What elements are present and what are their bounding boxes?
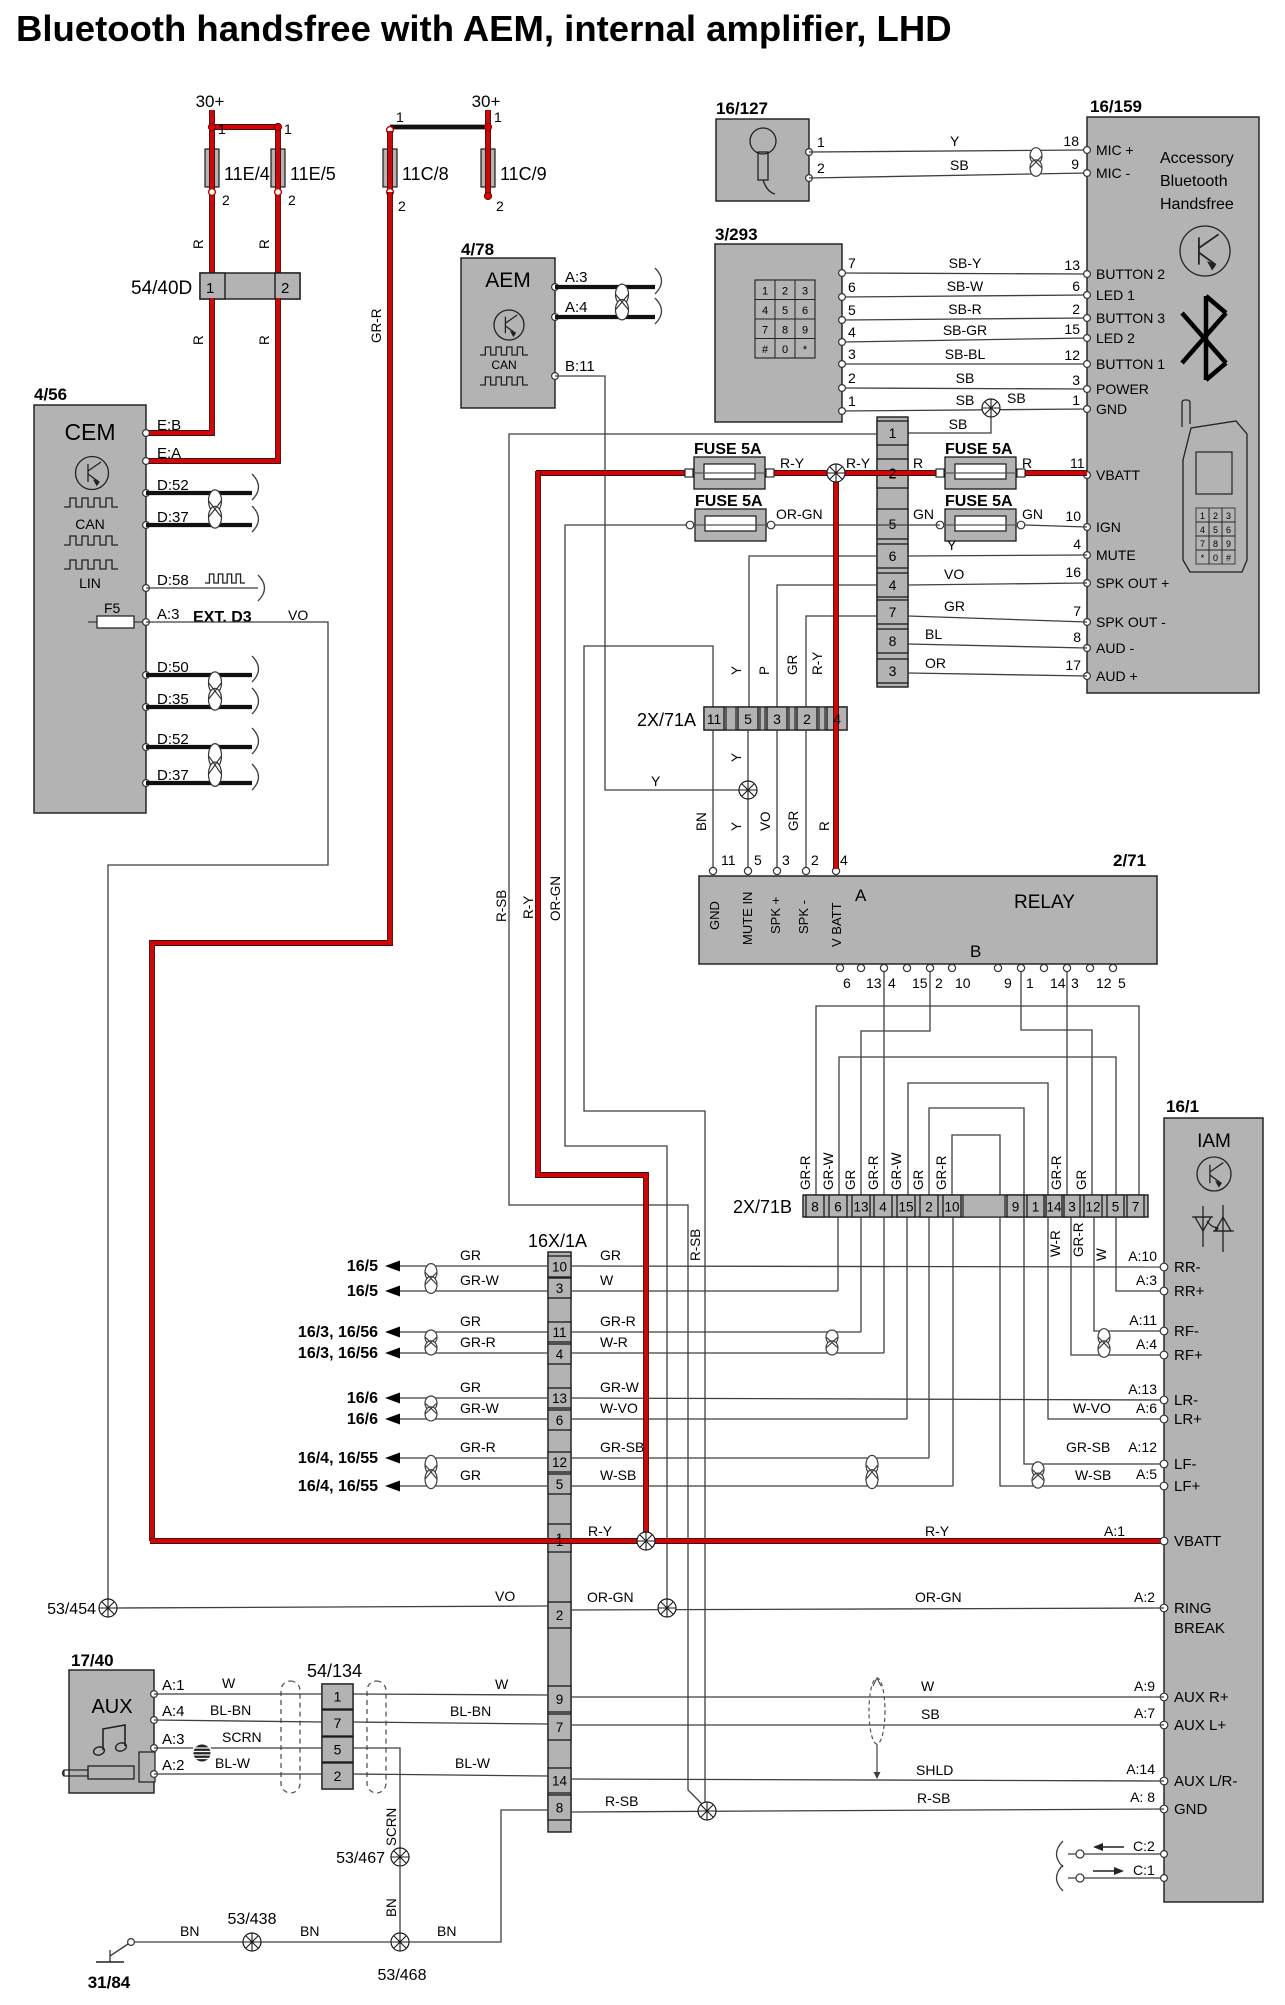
svg-text:16/6: 16/6 bbox=[347, 1390, 378, 1407]
wire SB-BL keypad pin 3 to 16/159 pin 12 bbox=[839, 346, 1087, 367]
svg-text:2: 2 bbox=[281, 280, 289, 297]
wire W-VO row LR+ 16X/1A to 2X/71B pin 15 riser bbox=[571, 1400, 1157, 1419]
wire OR-GN label / GN to strip cell 5 and right fuse to 16/159 IGN bbox=[775, 506, 1087, 527]
svg-text:7: 7 bbox=[1200, 539, 1205, 549]
svg-text:4: 4 bbox=[888, 975, 896, 991]
svg-text:2: 2 bbox=[1072, 301, 1080, 317]
svg-text:R-SB: R-SB bbox=[605, 1793, 638, 1809]
svg-text:C:1: C:1 bbox=[1133, 1862, 1155, 1878]
svg-text:AUX L+: AUX L+ bbox=[1174, 1717, 1226, 1734]
svg-text:1: 1 bbox=[889, 425, 897, 441]
svg-text:P: P bbox=[757, 666, 772, 675]
fuse FUSE 5A (VBATT right) bbox=[945, 441, 1016, 489]
wire drop 2X/71B pin 12 to RF- row (GR-R) bbox=[1071, 1217, 1164, 1331]
svg-text:VO: VO bbox=[495, 1588, 515, 1604]
svg-text:GR-R: GR-R bbox=[866, 1155, 881, 1190]
svg-text:BUTTON 3: BUTTON 3 bbox=[1096, 310, 1165, 326]
wire BL-BN 54/134 to 16X/1A cell 7 bbox=[353, 1703, 548, 1724]
svg-text:30+: 30+ bbox=[196, 92, 225, 111]
svg-text:5: 5 bbox=[744, 711, 752, 727]
svg-text:9: 9 bbox=[802, 325, 808, 337]
svg-text:0: 0 bbox=[782, 344, 788, 356]
ground bridge wire to 2X/71A pin 11 bbox=[584, 646, 713, 1806]
bridge wire 2X/71B pin 15 to pin 14 bbox=[908, 1083, 1048, 1196]
AEM pins A:3 A:4 B:11 bbox=[552, 269, 595, 379]
title bbox=[16, 8, 952, 49]
labels on red fuse row bbox=[780, 455, 1085, 471]
svg-text:GN: GN bbox=[1022, 506, 1043, 522]
svg-text:V BATT: V BATT bbox=[829, 902, 844, 947]
svg-text:A:1: A:1 bbox=[1104, 1523, 1125, 1539]
wire GR strip cell 7 left to 2X/71A pin 2 bbox=[785, 616, 877, 708]
svg-text:A:10: A:10 bbox=[1128, 1248, 1157, 1264]
svg-text:SB-R: SB-R bbox=[948, 301, 981, 317]
svg-text:6: 6 bbox=[843, 975, 851, 991]
svg-text:11: 11 bbox=[1070, 455, 1085, 471]
svg-text:14: 14 bbox=[552, 1774, 568, 1789]
svg-text:9: 9 bbox=[1071, 156, 1079, 172]
svg-text:GR: GR bbox=[1074, 1169, 1089, 1190]
svg-text:SHLD: SHLD bbox=[916, 1762, 953, 1778]
wire GR row 16/5 (RR-) left of 16X/1A bbox=[347, 1247, 548, 1275]
svg-text:SCRN: SCRN bbox=[384, 1808, 399, 1846]
splice 53/438 bbox=[228, 1911, 277, 1951]
wire colour labels above 2X/71B bbox=[798, 1152, 1089, 1190]
svg-text:GND: GND bbox=[1174, 1801, 1208, 1818]
svg-text:R: R bbox=[257, 335, 272, 345]
wire BL-BN AUX A:4 to 54/134 pin 7 bbox=[154, 1702, 322, 1722]
svg-text:B: B bbox=[970, 942, 981, 961]
svg-text:2: 2 bbox=[1213, 511, 1218, 521]
svg-text:11E/4: 11E/4 bbox=[224, 164, 270, 184]
bridge wire 2X/71B pin 6 to pin 5 bbox=[839, 1057, 1116, 1196]
svg-text:13: 13 bbox=[853, 1200, 868, 1215]
svg-text:W-SB: W-SB bbox=[1075, 1467, 1111, 1483]
svg-text:OR: OR bbox=[925, 655, 946, 671]
svg-text:W: W bbox=[921, 1678, 935, 1694]
svg-text:2: 2 bbox=[222, 192, 230, 208]
svg-text:2: 2 bbox=[925, 1200, 933, 1215]
svg-text:5: 5 bbox=[334, 1742, 342, 1758]
svg-text:8: 8 bbox=[811, 1200, 819, 1215]
svg-text:BN: BN bbox=[384, 1898, 399, 1917]
svg-text:BL-BN: BL-BN bbox=[450, 1703, 491, 1719]
svg-text:R-Y: R-Y bbox=[846, 455, 871, 471]
svg-text:GR: GR bbox=[944, 598, 965, 614]
wire drop 2X/71B pin 14 to LR+ row (W-VO) bbox=[1048, 1217, 1164, 1419]
svg-text:16/5: 16/5 bbox=[347, 1258, 378, 1275]
svg-text:3: 3 bbox=[1068, 1200, 1076, 1215]
svg-text:SB: SB bbox=[949, 416, 968, 432]
svg-text:*: * bbox=[803, 344, 808, 356]
svg-text:4: 4 bbox=[840, 852, 848, 868]
wire BN 2X/71A pin 11 to relay GND bbox=[694, 730, 736, 869]
svg-text:1: 1 bbox=[494, 109, 502, 125]
svg-text:10: 10 bbox=[944, 1200, 959, 1215]
wire SB MIC- to 16/159 pin 9 bbox=[809, 156, 1087, 178]
svg-text:VO: VO bbox=[758, 811, 773, 831]
svg-text:FUSE 5A: FUSE 5A bbox=[945, 441, 1013, 458]
svg-text:R: R bbox=[257, 239, 272, 249]
twist on RF pair near 2X/71B bbox=[826, 1330, 838, 1355]
svg-text:A:2: A:2 bbox=[1134, 1589, 1155, 1605]
labels on red VBATT row bbox=[588, 1523, 1125, 1539]
svg-text:GR: GR bbox=[786, 810, 801, 831]
wire VO from CEM A:3 down to splice 53/454 bbox=[108, 622, 328, 1601]
twist on 16/6 pair bbox=[425, 1396, 437, 1421]
svg-text:R-Y: R-Y bbox=[925, 1523, 950, 1539]
splice on mute Y wire bbox=[739, 781, 757, 799]
wire GR-W row 16/6 (LR+) left bbox=[347, 1400, 548, 1428]
svg-text:F5: F5 bbox=[104, 600, 121, 616]
svg-text:1: 1 bbox=[1200, 511, 1205, 521]
wire OR-GN from IGN fuse to the left and down bbox=[548, 525, 686, 1602]
label EXT. D3 and VO on CEM A:3 wire bbox=[193, 607, 308, 626]
svg-text:10: 10 bbox=[1065, 508, 1081, 524]
wire link 11C/8 pin1 to 11C/9 pin1 (black) bbox=[390, 109, 502, 127]
wire BL-W AUX A:2 to 54/134 pin 2 bbox=[154, 1755, 322, 1774]
wire SB-Y keypad pin 7 to 16/159 pin 13 bbox=[839, 255, 1087, 276]
svg-text:GR-R: GR-R bbox=[460, 1334, 496, 1350]
svg-text:R-Y: R-Y bbox=[810, 652, 825, 675]
svg-text:9: 9 bbox=[1226, 539, 1231, 549]
connector 2X/71B bbox=[733, 1195, 1148, 1217]
svg-text:6: 6 bbox=[1226, 525, 1231, 535]
svg-text:W: W bbox=[222, 1675, 236, 1691]
wire drop 2X/71B pin 6 to W row bbox=[837, 1217, 839, 1291]
wire GR row RR- 16X/1A to IAM A:10 bbox=[571, 1247, 1164, 1267]
wire R-SB 16X/1A cell 8 to IAM A:8 GND bbox=[571, 1789, 1164, 1812]
svg-text:11C/8: 11C/8 bbox=[402, 164, 449, 184]
svg-text:GR-W: GR-W bbox=[821, 1152, 836, 1190]
svg-text:R: R bbox=[913, 455, 923, 471]
svg-text:A: A bbox=[855, 886, 867, 905]
svg-text:3: 3 bbox=[889, 663, 897, 679]
svg-text:BN: BN bbox=[180, 1923, 199, 1939]
svg-text:5: 5 bbox=[848, 302, 856, 318]
wire BN ground run with splice 53/438 bbox=[134, 1923, 392, 1942]
dashed pass-through connector left of 54/134 bbox=[281, 1681, 300, 1793]
svg-text:RELAY: RELAY bbox=[1014, 892, 1075, 913]
svg-text:RF-: RF- bbox=[1174, 1323, 1199, 1340]
svg-text:BREAK: BREAK bbox=[1174, 1620, 1225, 1637]
svg-text:54/40D: 54/40D bbox=[131, 278, 192, 299]
svg-text:1: 1 bbox=[334, 1689, 342, 1705]
svg-text:0: 0 bbox=[1213, 553, 1218, 563]
svg-text:GR: GR bbox=[911, 1169, 926, 1190]
wire R from 11E/5 pin 2 to 54/40D pin 2 bbox=[257, 189, 296, 274]
svg-text:VBATT: VBATT bbox=[1174, 1533, 1221, 1550]
splice 53/468 bbox=[378, 1933, 427, 1984]
wire drop 2X/71B pin 2 to GR-SB row bbox=[928, 1217, 930, 1458]
wire SB keypad pin 2 to 16/159 pin 3 bbox=[839, 370, 1087, 391]
AUX pins bbox=[151, 1677, 185, 1777]
pin number 2 of harness strip over red wire bbox=[889, 465, 897, 481]
svg-text:2: 2 bbox=[556, 1608, 564, 1623]
wire R from 11E/4 pin 2 to 54/40D pin 1 bbox=[191, 189, 230, 274]
splice on keypad GND SB wire bbox=[982, 390, 1026, 417]
svg-text:53/468: 53/468 bbox=[378, 1967, 427, 1984]
svg-text:SB: SB bbox=[950, 157, 969, 173]
AUX music note symbol bbox=[93, 1725, 128, 1756]
svg-text:Bluetooth: Bluetooth bbox=[1160, 173, 1228, 190]
svg-text:16X/1A: 16X/1A bbox=[528, 1231, 587, 1251]
svg-text:SPK OUT -: SPK OUT - bbox=[1096, 614, 1166, 630]
svg-text:C:2: C:2 bbox=[1133, 1838, 1155, 1854]
splice on red VBATT row bbox=[637, 1532, 655, 1550]
wire SHLD 16X/1A cell 14 to IAM A:14 bbox=[571, 1761, 1164, 1781]
svg-text:Y: Y bbox=[947, 537, 957, 553]
CEM pin labels bbox=[143, 417, 189, 786]
wire VO strip cell 4 to 16/159 SPK OUT + bbox=[908, 564, 1087, 585]
svg-text:AUX: AUX bbox=[91, 1696, 132, 1718]
svg-text:RR+: RR+ bbox=[1174, 1283, 1205, 1300]
wire R from 54/40D pin 2 to CEM E:A bbox=[146, 298, 278, 461]
svg-text:GR-R: GR-R bbox=[1049, 1155, 1064, 1190]
wire GR row 16/4,16/55 (LF+) left bbox=[298, 1467, 548, 1495]
svg-text:1: 1 bbox=[1072, 392, 1080, 408]
svg-text:8: 8 bbox=[889, 633, 897, 649]
twist on LF pair near 2X/71B bbox=[866, 1455, 878, 1488]
relay 2/71 bbox=[699, 851, 1157, 964]
svg-text:LF-: LF- bbox=[1174, 1456, 1197, 1473]
wire GR-R row RF- 16X/1A to 2X/71B pin 13 riser bbox=[571, 1312, 1157, 1332]
svg-text:16/159: 16/159 bbox=[1090, 97, 1142, 116]
svg-text:LF+: LF+ bbox=[1174, 1478, 1201, 1495]
svg-text:2: 2 bbox=[334, 1768, 342, 1784]
svg-text:W-R: W-R bbox=[600, 1334, 628, 1350]
svg-text:Y: Y bbox=[729, 822, 744, 831]
svg-text:1: 1 bbox=[1026, 975, 1034, 991]
bridge wire 2X/71B pin 10 to pin 9 bbox=[952, 1135, 1000, 1196]
wire BL strip cell 8 to 16/159 AUD - bbox=[908, 626, 1087, 648]
wire drop 2X/71B pin 9 to LF+ row (W-SB) bbox=[1000, 1217, 1164, 1486]
svg-text:2X/71A: 2X/71A bbox=[637, 710, 696, 730]
svg-text:1: 1 bbox=[848, 393, 856, 409]
svg-text:A:4: A:4 bbox=[1136, 1336, 1157, 1352]
svg-text:14: 14 bbox=[1050, 975, 1066, 991]
svg-text:A:7: A:7 bbox=[1134, 1705, 1155, 1721]
svg-text:R: R bbox=[191, 239, 206, 249]
svg-text:1: 1 bbox=[1032, 1200, 1040, 1215]
svg-text:Bluetooth handsfree with AEM,: Bluetooth handsfree with AEM, internal a… bbox=[16, 8, 952, 49]
AUX jack plug symbol bbox=[63, 1766, 135, 1779]
screen ground symbol on SCRN wire bbox=[193, 1745, 211, 1761]
fuse element of FUSE 5A VBATT left bbox=[685, 464, 774, 479]
svg-text:R-SB: R-SB bbox=[917, 1790, 950, 1806]
junction dot at 11C/9 pin 1 bbox=[387, 123, 492, 133]
dashed pass-through connector right of 54/134 bbox=[367, 1681, 386, 1793]
wire BN from 53/468 to 16X/1A cell 8 bbox=[408, 1810, 548, 1942]
pin number 1 of 16X/1A over red wire bbox=[556, 1534, 564, 1549]
svg-text:GR-R: GR-R bbox=[460, 1439, 496, 1455]
svg-text:53/438: 53/438 bbox=[228, 1911, 277, 1928]
fuse 11E/4 bbox=[205, 121, 270, 189]
wire SCRN AUX A:3 to 54/134 pin 5 bbox=[154, 1729, 322, 1748]
fuse 11C/9 bbox=[481, 148, 547, 194]
svg-text:SB: SB bbox=[956, 392, 975, 408]
svg-text:LIN: LIN bbox=[79, 575, 101, 591]
module AEM 4/78 bbox=[461, 240, 555, 408]
wire SCRN 54/134 pin 5 right and down to splice 53/467 bbox=[353, 1748, 400, 1848]
wire GR 2X/71A pin 2 to relay SPK- bbox=[786, 730, 819, 869]
svg-text:GR: GR bbox=[460, 1379, 481, 1395]
svg-text:4: 4 bbox=[879, 1200, 887, 1215]
svg-text:BL-BN: BL-BN bbox=[210, 1702, 251, 1718]
wire P strip cell 4 left to 2X/71A pin 3 bbox=[757, 585, 877, 708]
svg-text:13: 13 bbox=[866, 975, 882, 991]
svg-text:9: 9 bbox=[556, 1692, 564, 1707]
wire R 30+ feed to 11E/4 and 11E/5 bbox=[210, 110, 280, 152]
wire GR-R row 16/3,16/56 (RF+) left bbox=[298, 1334, 548, 1362]
wire Y from AEM B:11 down to mute splice bbox=[555, 376, 747, 790]
svg-text:7: 7 bbox=[1132, 1200, 1140, 1215]
svg-text:6: 6 bbox=[1072, 278, 1080, 294]
svg-text:7: 7 bbox=[556, 1720, 564, 1735]
16/159 transistor symbol bbox=[1180, 226, 1230, 276]
svg-text:#: # bbox=[1226, 553, 1231, 563]
svg-text:BL-W: BL-W bbox=[215, 1755, 251, 1771]
svg-text:5: 5 bbox=[556, 1477, 564, 1492]
svg-text:2: 2 bbox=[782, 286, 788, 298]
bluetooth rune symbol bbox=[1182, 296, 1226, 380]
connector 2X/71A bbox=[637, 707, 847, 730]
wire pair D:52/D:37 (CAN) with twist and break bbox=[146, 474, 259, 532]
svg-text:VO: VO bbox=[288, 607, 308, 623]
svg-text:A:12: A:12 bbox=[1128, 1439, 1157, 1455]
svg-text:GR: GR bbox=[843, 1169, 858, 1190]
16/159 title text bbox=[1160, 150, 1234, 213]
wire BL-W 54/134 to 16X/1A cell 14 bbox=[353, 1755, 548, 1776]
IAM pin names and circles bbox=[1160, 1259, 1237, 1818]
wire pair D:50/D:35 with twist and break bbox=[146, 656, 259, 714]
svg-text:1: 1 bbox=[762, 286, 768, 298]
svg-text:12: 12 bbox=[552, 1455, 567, 1470]
wire GR-R from 11C/8 down the page bbox=[152, 192, 390, 1541]
svg-text:AUX R+: AUX R+ bbox=[1174, 1689, 1229, 1706]
svg-text:11: 11 bbox=[552, 1325, 566, 1340]
svg-text:4: 4 bbox=[1200, 525, 1205, 535]
svg-text:CEM: CEM bbox=[64, 419, 115, 445]
twist on RF pair near IAM bbox=[1098, 1329, 1110, 1358]
wire SB 16X/1A cell 7 to IAM A:7 bbox=[571, 1705, 1164, 1725]
svg-text:GR-R: GR-R bbox=[1071, 1222, 1086, 1257]
svg-text:13: 13 bbox=[1064, 257, 1080, 273]
svg-text:17: 17 bbox=[1065, 657, 1081, 673]
svg-text:A:2: A:2 bbox=[162, 1757, 185, 1774]
svg-text:BN: BN bbox=[300, 1923, 319, 1939]
pin number 4 of 2X/71A over red wire bbox=[833, 711, 841, 727]
wire Y strip cell 6 to 16/159 MUTE bbox=[908, 536, 1087, 556]
svg-text:A:3: A:3 bbox=[157, 606, 180, 623]
wire R-Y VBATT red row to IAM A:1 bbox=[150, 1538, 1164, 1544]
svg-text:9: 9 bbox=[1004, 975, 1012, 991]
svg-text:D:58: D:58 bbox=[157, 572, 189, 589]
svg-text:2: 2 bbox=[811, 852, 819, 868]
svg-text:A:1: A:1 bbox=[162, 1677, 185, 1694]
wire C:1 with break and arrow bbox=[1057, 1862, 1168, 1891]
wire R-Y red down from fuse corner to 16X/1A pin 1 row bbox=[521, 471, 646, 1541]
svg-text:W-R: W-R bbox=[1048, 1230, 1063, 1257]
wire D:58 (LIN) with wave and break bbox=[146, 574, 265, 601]
svg-text:GR: GR bbox=[460, 1467, 481, 1483]
svg-text:31/84: 31/84 bbox=[88, 1973, 131, 1992]
svg-text:12: 12 bbox=[1096, 975, 1112, 991]
wire W 54/134 to 16X/1A cell 9 bbox=[353, 1676, 548, 1695]
svg-text:Y: Y bbox=[950, 133, 960, 149]
svg-text:A:3: A:3 bbox=[162, 1731, 185, 1748]
wire relay B1 to 2X/71B pin 12 bbox=[1021, 972, 1092, 1196]
wire R-SB from strip cell 1 to the left (drops down page) bbox=[494, 434, 877, 1808]
wire SB from GND splice down to connector cell 1 bbox=[908, 416, 991, 433]
svg-text:54/134: 54/134 bbox=[307, 1661, 362, 1681]
splice on OR-GN ring break wire bbox=[658, 1599, 676, 1617]
svg-text:R: R bbox=[191, 335, 206, 345]
svg-text:6: 6 bbox=[889, 548, 897, 564]
svg-text:3: 3 bbox=[1071, 975, 1079, 991]
svg-text:1: 1 bbox=[206, 280, 214, 297]
svg-text:2: 2 bbox=[889, 465, 897, 481]
twist on LF pair near IAM bbox=[1032, 1462, 1044, 1488]
wire drop 2X/71B pin 10 to W-SB row bbox=[952, 1217, 954, 1486]
svg-text:16/4, 16/55: 16/4, 16/55 bbox=[298, 1450, 378, 1467]
wire R 30+ down to 11C/9 bbox=[485, 110, 491, 150]
relay B-row pins and numbers bbox=[836, 964, 1126, 991]
svg-text:FUSE 5A: FUSE 5A bbox=[695, 493, 763, 510]
svg-text:1: 1 bbox=[284, 121, 292, 137]
svg-text:GR-SB: GR-SB bbox=[600, 1439, 644, 1455]
svg-text:A:11: A:11 bbox=[1129, 1312, 1157, 1328]
wire Y MIC+ to 16/159 pin 18 bbox=[809, 133, 1087, 152]
svg-text:BN: BN bbox=[694, 812, 709, 831]
svg-text:3: 3 bbox=[1226, 511, 1231, 521]
svg-text:6: 6 bbox=[848, 279, 856, 295]
svg-text:17/40: 17/40 bbox=[71, 1651, 114, 1670]
CEM CAN symbol bbox=[64, 498, 118, 545]
svg-text:11: 11 bbox=[721, 852, 736, 868]
svg-text:FUSE 5A: FUSE 5A bbox=[945, 493, 1013, 510]
wire relay B4 to 2X/71B pin 4 bbox=[883, 972, 885, 1196]
svg-text:AUD +: AUD + bbox=[1096, 668, 1138, 684]
svg-text:4: 4 bbox=[889, 577, 897, 593]
svg-text:4: 4 bbox=[556, 1347, 564, 1362]
svg-text:53/454: 53/454 bbox=[47, 1601, 96, 1618]
svg-text:A:4: A:4 bbox=[565, 299, 588, 316]
svg-text:10: 10 bbox=[955, 975, 971, 991]
svg-text:SB: SB bbox=[956, 370, 975, 386]
wire OR-GN 16X/1A cell 2 to IAM A:2 with splice bbox=[571, 1589, 1164, 1610]
wire SB-W keypad pin 6 to 16/159 pin 6 bbox=[839, 278, 1087, 300]
svg-text:11E/5: 11E/5 bbox=[290, 164, 336, 184]
wire W AUX A:1 to 54/134 pin 1 bbox=[154, 1675, 322, 1694]
svg-text:GR: GR bbox=[460, 1313, 481, 1329]
relay A-row pin circles bbox=[709, 867, 839, 874]
svg-text:1: 1 bbox=[396, 109, 404, 125]
svg-text:LR-: LR- bbox=[1174, 1392, 1198, 1409]
svg-text:5: 5 bbox=[1118, 975, 1126, 991]
svg-text:5: 5 bbox=[754, 852, 762, 868]
phone icon bbox=[1182, 400, 1247, 572]
wire Y 2X/71A pin 5 through mute splice to relay MUTE IN bbox=[729, 730, 762, 869]
svg-text:IAM: IAM bbox=[1197, 1131, 1231, 1152]
svg-text:SB-GR: SB-GR bbox=[943, 322, 987, 338]
svg-text:2/71: 2/71 bbox=[1113, 851, 1146, 870]
module AUX 17/40 bbox=[69, 1651, 155, 1793]
svg-text:A:3: A:3 bbox=[1136, 1272, 1157, 1288]
mic pair twist bbox=[1030, 148, 1042, 177]
svg-text:GND: GND bbox=[707, 901, 722, 930]
svg-text:RING: RING bbox=[1174, 1600, 1212, 1617]
